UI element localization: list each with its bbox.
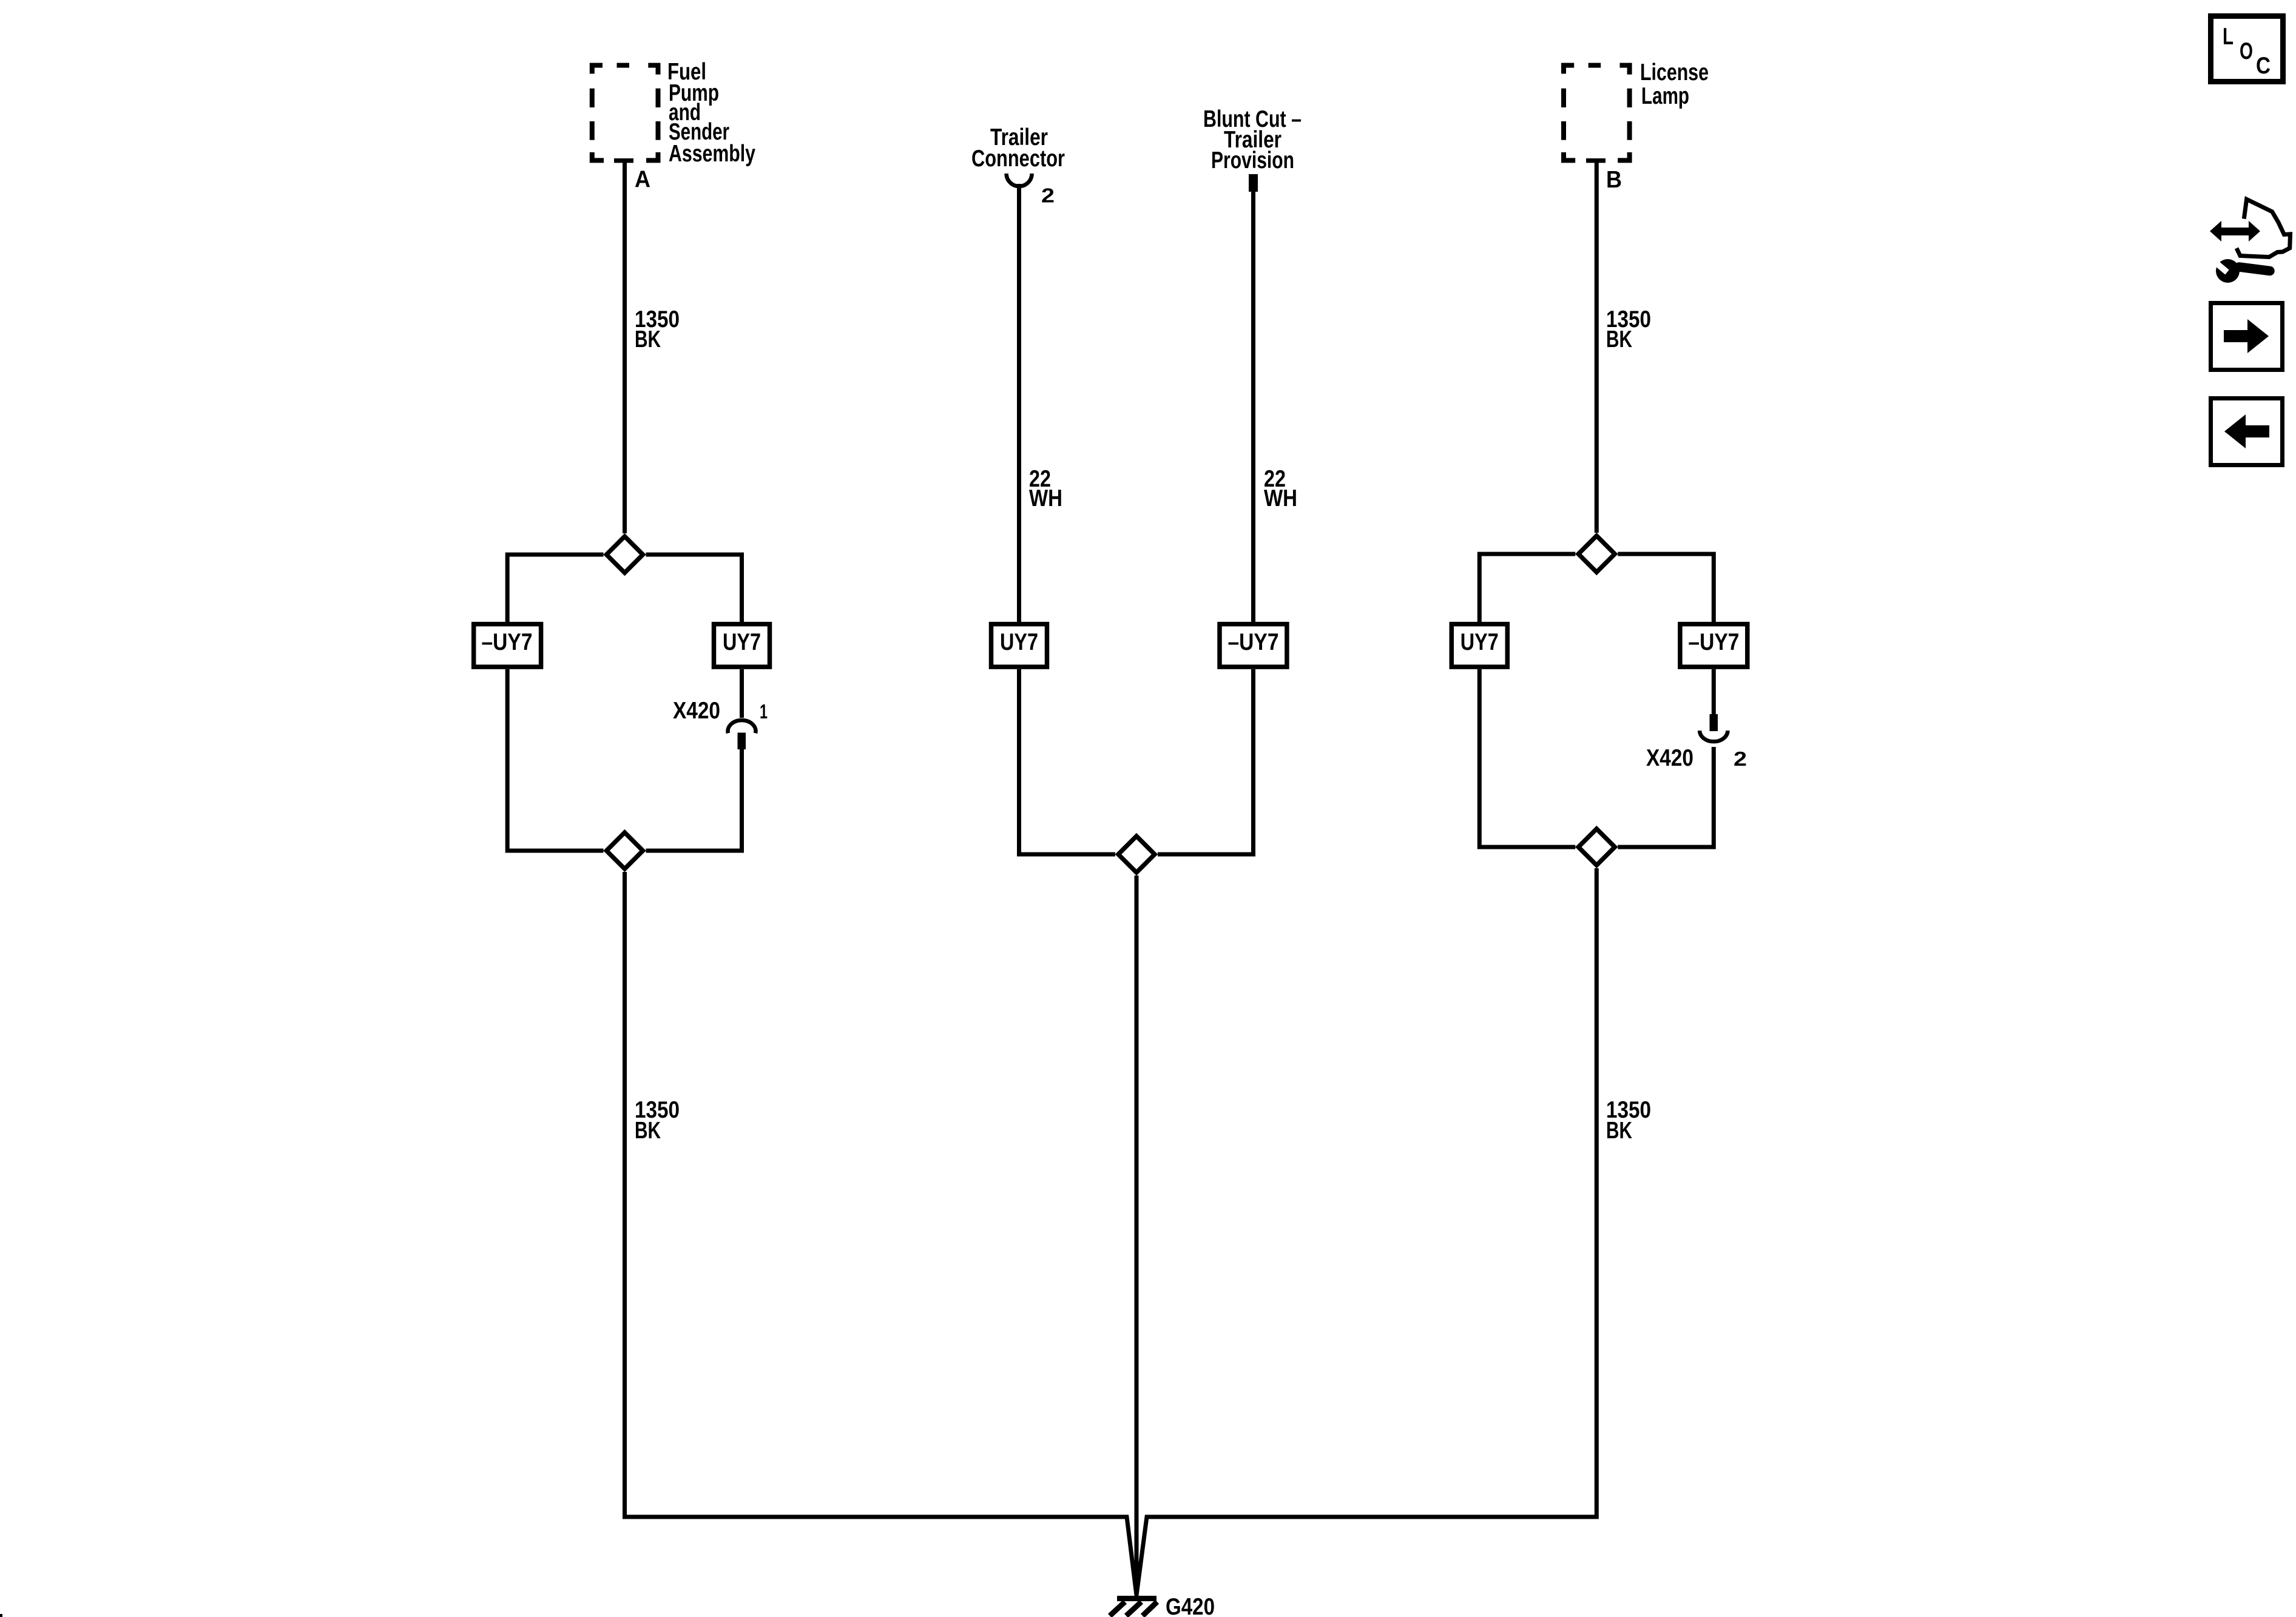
svg-text:WH: WH bbox=[1264, 485, 1297, 511]
svg-text:2: 2 bbox=[1734, 748, 1747, 770]
svg-text:UY7: UY7 bbox=[723, 629, 761, 655]
svg-text:Lamp: Lamp bbox=[1641, 83, 1689, 109]
svg-text:License: License bbox=[1640, 59, 1709, 86]
svg-text:Assembly: Assembly bbox=[669, 141, 755, 167]
svg-text:WH: WH bbox=[1029, 485, 1062, 511]
svg-text:UY7: UY7 bbox=[1000, 629, 1038, 655]
svg-text:BK: BK bbox=[635, 1118, 661, 1144]
svg-text:BK: BK bbox=[1606, 326, 1632, 353]
svg-text:2: 2 bbox=[1041, 184, 1055, 207]
svg-text:–UY7: –UY7 bbox=[1688, 629, 1739, 655]
svg-text:A: A bbox=[635, 167, 650, 193]
svg-text:UY7: UY7 bbox=[1460, 629, 1499, 655]
svg-text:1: 1 bbox=[760, 700, 768, 723]
svg-text:B: B bbox=[1606, 167, 1622, 193]
svg-text:Connector: Connector bbox=[971, 146, 1065, 172]
svg-text:G420: G420 bbox=[1166, 1594, 1215, 1617]
svg-text:Provision: Provision bbox=[1211, 147, 1294, 174]
svg-text:–UY7: –UY7 bbox=[1228, 629, 1279, 655]
svg-text:BK: BK bbox=[635, 326, 661, 353]
svg-text:X420: X420 bbox=[1646, 745, 1693, 771]
svg-text:–UY7: –UY7 bbox=[482, 629, 533, 655]
svg-text:BK: BK bbox=[1606, 1118, 1632, 1144]
svg-text:X420: X420 bbox=[673, 698, 720, 724]
svg-text:L: L bbox=[2223, 24, 2234, 50]
svg-text:C: C bbox=[2256, 53, 2271, 79]
svg-text:O: O bbox=[2240, 38, 2253, 64]
